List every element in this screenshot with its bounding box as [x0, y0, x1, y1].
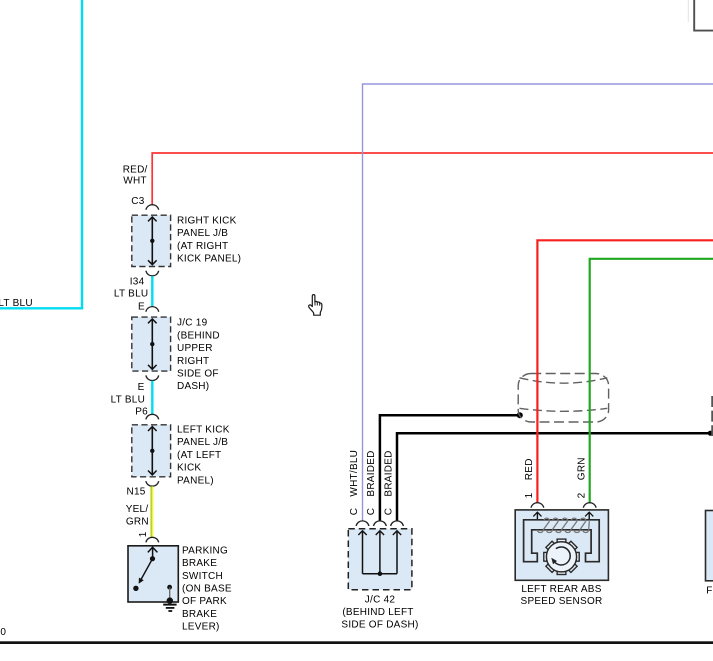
label RIGHT KICK PANEL J/B: [177, 215, 241, 264]
label PARKING BRAKE SWITCH: [182, 545, 232, 632]
svg-text:PANEL): PANEL): [177, 475, 214, 486]
svg-text:N15: N15: [126, 487, 145, 498]
svg-text:PARKING: PARKING: [182, 545, 228, 556]
wire WHT/BLU (lavender): [363, 84, 713, 521]
wire LT BLU (between J/C 19 and box3): [151, 381, 153, 414]
svg-text:(BEHIND LEFT: (BEHIND LEFT: [342, 607, 413, 618]
svg-text:(AT RIGHT: (AT RIGHT: [177, 241, 228, 252]
svg-text:LT BLU: LT BLU: [111, 394, 145, 405]
svg-text:1: 1: [138, 531, 149, 537]
wire BRAIDED 2 (black, to shield barrel 2): [397, 433, 710, 521]
shield barrel 1 (dashed cylinder): [518, 374, 608, 423]
ground (parking brake switch): [163, 605, 176, 611]
wire LT BLU (between box1 and box2): [151, 276, 153, 306]
connector arcs (sensor entries): [531, 503, 544, 508]
connector arc N15: [146, 481, 159, 486]
svg-text:0: 0: [0, 627, 6, 638]
svg-text:WHT/BLU: WHT/BLU: [349, 450, 360, 497]
svg-text:PANEL J/B: PANEL J/B: [177, 228, 228, 239]
junction block LEFT KICK PANEL J/B: [132, 425, 171, 477]
junction dot (shield barrel 2): [708, 431, 713, 436]
svg-text:RED/: RED/: [123, 165, 148, 176]
parking brake switch: [128, 546, 178, 604]
svg-text:E: E: [138, 302, 145, 313]
junction dot (shield barrel 1): [517, 412, 523, 418]
svg-text:J/C 19: J/C 19: [177, 318, 208, 329]
svg-text:SPEED SENSOR: SPEED SENSOR: [521, 596, 603, 607]
svg-text:2: 2: [576, 492, 587, 498]
tone ring (gear): [544, 539, 579, 574]
connector arc E (below J/C 19): [146, 375, 159, 380]
svg-text:BRAKE: BRAKE: [182, 558, 217, 569]
label J/C 19: [177, 318, 220, 393]
svg-text:KICK: KICK: [177, 463, 201, 474]
connector arc (switch entry): [146, 537, 159, 542]
junction block RIGHT KICK PANEL J/B: [132, 215, 171, 266]
svg-text:LEVER): LEVER): [182, 622, 220, 633]
wire GRN (sensor pin 2): [590, 259, 713, 503]
svg-text:BRAIDED: BRAIDED: [366, 450, 377, 496]
label LEFT KICK PANEL J/B: [177, 425, 230, 487]
LEFT REAR ABS SPEED SENSOR: [515, 510, 608, 580]
connector arc P6: [146, 414, 159, 419]
bottom border line: [0, 641, 713, 644]
svg-text:GRN: GRN: [126, 517, 149, 528]
svg-text:E: E: [138, 382, 145, 393]
svg-text:J/C 42: J/C 42: [365, 594, 396, 605]
svg-text:DASH): DASH): [177, 381, 209, 392]
junction connector J/C 42: [348, 529, 412, 590]
svg-text:PANEL J/B: PANEL J/B: [177, 437, 228, 448]
connector arc C3: [146, 205, 159, 210]
svg-text:SWITCH: SWITCH: [182, 571, 223, 582]
wire RED (sensor pin 1): [537, 240, 713, 502]
svg-text:GRN: GRN: [576, 457, 587, 480]
svg-text:(AT LEFT: (AT LEFT: [177, 450, 221, 461]
svg-text:I34: I34: [130, 277, 145, 288]
svg-text:WHT: WHT: [123, 176, 147, 187]
faint line near gray box: [687, 0, 689, 22]
gray box (top right corner): [694, 0, 713, 31]
connector arc I34 (below box 1): [146, 271, 159, 276]
pin 2 arrow: [588, 512, 590, 520]
svg-text:C: C: [383, 508, 394, 515]
svg-text:LT BLU: LT BLU: [114, 289, 148, 300]
svg-text:(ON BASE: (ON BASE: [182, 584, 232, 595]
svg-text:OF PARK: OF PARK: [182, 596, 227, 607]
junction block J/C 19: [132, 317, 171, 371]
pin 1 arrow: [536, 512, 538, 520]
svg-text:1: 1: [524, 492, 535, 498]
svg-text:KICK PANEL): KICK PANEL): [177, 254, 241, 265]
label LEFT REAR ABS SPEED SENSOR: [521, 584, 603, 607]
svg-text:C: C: [349, 508, 360, 515]
rotation arrow (tone ring): [555, 547, 570, 565]
wire BRAIDED 1 (black, to shield barrel 1): [380, 415, 520, 521]
svg-text:C: C: [366, 508, 377, 515]
wire RED/WHT (red): [152, 153, 713, 205]
sensor bracket: [524, 520, 600, 562]
svg-text:RIGHT KICK: RIGHT KICK: [177, 215, 237, 226]
connector arc E: [146, 307, 159, 312]
svg-text:BRAKE: BRAKE: [182, 609, 217, 620]
svg-text:UPPER: UPPER: [177, 343, 213, 354]
svg-text:YEL/: YEL/: [126, 504, 149, 515]
connector arcs (J/C 42 entries): [356, 521, 369, 526]
label J/C 42: [341, 594, 418, 630]
svg-text:(BEHIND: (BEHIND: [177, 330, 220, 341]
svg-text:RED: RED: [524, 458, 535, 480]
wire YEL/GRN: [150, 486, 152, 537]
svg-text:RIGHT: RIGHT: [177, 356, 209, 367]
svg-text:P6: P6: [135, 407, 148, 418]
svg-text:C3: C3: [131, 196, 144, 207]
svg-text:LEFT REAR ABS: LEFT REAR ABS: [521, 584, 601, 595]
svg-text:LT BLU: LT BLU: [0, 298, 33, 309]
svg-text:F: F: [706, 586, 712, 597]
svg-text:LEFT KICK: LEFT KICK: [177, 425, 230, 436]
shield barrel 2 (dashed, cut at right edge): [711, 396, 713, 436]
svg-text:SIDE OF DASH): SIDE OF DASH): [341, 619, 418, 630]
right rear sensor box (cut at right edge): [706, 511, 713, 581]
hand cursor: [309, 295, 322, 316]
svg-text:SIDE OF: SIDE OF: [177, 369, 219, 380]
svg-text:BRAIDED: BRAIDED: [383, 450, 394, 496]
sensor coil: [537, 518, 589, 532]
wire LT BLU (left, cyan): [0, 0, 82, 308]
